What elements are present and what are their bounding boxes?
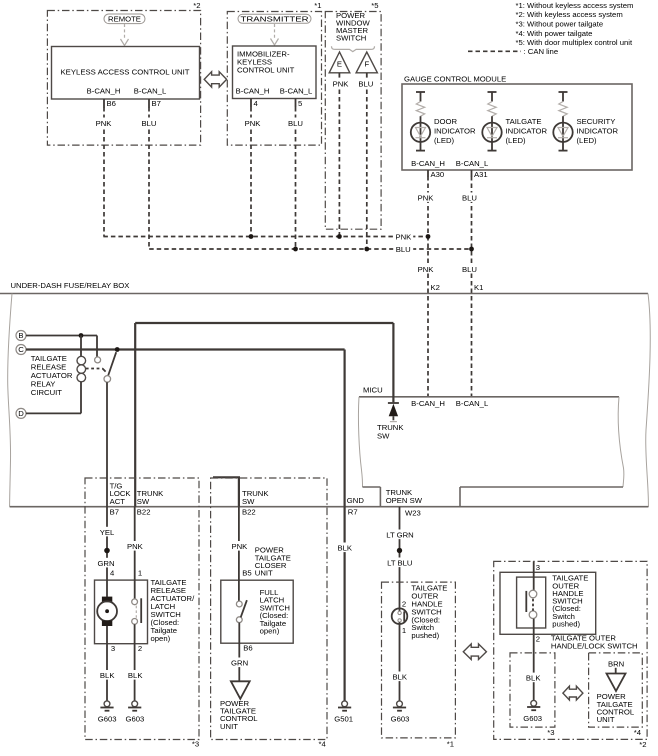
svg-text:BLK: BLK [100,671,115,680]
svg-text:*4: *4 [319,740,327,749]
svg-text:DOOR: DOOR [434,117,458,126]
svg-text:CONTROL UNIT: CONTROL UNIT [237,65,295,74]
svg-text:: CAN line: : CAN line [524,47,559,56]
svg-text:1: 1 [138,568,142,577]
svg-text:CIRCUIT: CIRCUIT [31,388,62,397]
svg-text:SW: SW [377,431,390,440]
svg-text:UNDER-DASH FUSE/RELAY BOX: UNDER-DASH FUSE/RELAY BOX [11,281,130,290]
svg-text:GAUGE CONTROL MODULE: GAUGE CONTROL MODULE [404,75,506,84]
svg-text:PNK: PNK [396,233,413,242]
svg-text:GND: GND [347,496,365,505]
svg-text:REMOTE: REMOTE [108,14,141,23]
svg-text:G603: G603 [125,714,144,723]
svg-text:*1: *1 [314,1,321,10]
svg-text:PNK: PNK [96,119,113,128]
svg-text:*3: Without power tailgate: *3: Without power tailgate [516,20,604,29]
svg-text:UNIT: UNIT [597,715,615,724]
svg-text:SECURITY: SECURITY [577,117,616,126]
svg-text:ACT: ACT [110,497,126,506]
svg-text:4: 4 [110,568,115,577]
svg-text:B-CAN_L: B-CAN_L [456,159,489,168]
svg-text:K2: K2 [431,283,440,292]
svg-text:INDICATOR: INDICATOR [506,126,548,135]
svg-text:BLK: BLK [338,544,353,553]
svg-text:*3: *3 [192,740,199,749]
svg-text:(LED): (LED) [577,136,598,145]
svg-text:B-CAN_L: B-CAN_L [280,87,313,96]
svg-text:KEYLESS ACCESS CONTROL UNIT: KEYLESS ACCESS CONTROL UNIT [61,67,190,76]
svg-text:2: 2 [402,600,406,609]
svg-text:B5: B5 [242,568,251,577]
svg-text:BLU: BLU [358,79,373,88]
svg-text:D: D [18,409,24,418]
svg-text:MICU: MICU [363,386,383,395]
svg-text:B-CAN_L: B-CAN_L [456,399,489,408]
svg-text:pushed): pushed) [552,620,580,629]
svg-text:SW: SW [137,497,150,506]
svg-text:TAILGATE: TAILGATE [506,117,542,126]
svg-text:SWITCH: SWITCH [336,34,366,43]
svg-text:PNK: PNK [245,119,262,128]
svg-text:BLU: BLU [288,119,303,128]
svg-text:OPEN SW: OPEN SW [386,496,423,505]
svg-text:TRANSMITTER: TRANSMITTER [241,14,310,23]
svg-text:A30: A30 [431,170,445,179]
svg-text:5: 5 [298,99,302,108]
svg-text:PNK: PNK [127,542,144,551]
svg-text:*2: *2 [639,740,646,749]
svg-text:UNIT: UNIT [220,722,238,731]
svg-text:F: F [365,60,370,69]
svg-text:B-CAN_H: B-CAN_H [236,87,270,96]
svg-text:*2: *2 [193,1,200,10]
svg-text:G603: G603 [391,714,410,723]
svg-text:BLK: BLK [393,673,408,682]
svg-text:PNK: PNK [231,542,248,551]
svg-text:HANDLE/LOCK SWITCH: HANDLE/LOCK SWITCH [551,641,638,650]
svg-text:B7: B7 [152,99,161,108]
svg-text:W23: W23 [405,508,421,517]
svg-text:3: 3 [536,563,540,572]
svg-text:B-CAN_H: B-CAN_H [87,87,121,96]
svg-text:3: 3 [111,644,115,653]
svg-text:B: B [18,331,23,340]
svg-text:BRN: BRN [608,659,624,668]
svg-text:2: 2 [138,644,142,653]
svg-text:*4: *4 [634,728,642,737]
svg-text:C: C [18,345,24,354]
svg-text:BLU: BLU [142,119,157,128]
svg-text:R7: R7 [348,508,358,517]
svg-text:LT BLU: LT BLU [387,559,412,568]
svg-text:*1: *1 [447,740,454,749]
svg-text:LT GRN: LT GRN [386,531,413,540]
svg-text:BLK: BLK [128,671,143,680]
svg-text:open): open) [260,627,280,636]
svg-text:GRN: GRN [97,559,114,568]
svg-text:(LED): (LED) [506,136,527,145]
svg-text:G603: G603 [523,714,542,723]
svg-text:PNK: PNK [418,193,435,202]
svg-text:YEL: YEL [100,528,115,537]
svg-text:G603: G603 [98,714,117,723]
svg-text:*4: With power tailgate: *4: With power tailgate [516,29,593,38]
svg-text:B7: B7 [110,508,119,517]
svg-text:PNK: PNK [333,79,350,88]
svg-text:BLK: BLK [526,674,541,683]
svg-text:INDICATOR: INDICATOR [577,126,619,135]
svg-text:B-CAN_L: B-CAN_L [134,87,167,96]
svg-text:4: 4 [254,99,259,108]
svg-text:1: 1 [402,626,406,635]
svg-text:K1: K1 [474,283,483,292]
svg-text:UNIT: UNIT [255,569,273,578]
svg-text:E: E [337,60,342,69]
svg-text:BLU: BLU [462,265,477,274]
svg-text:pushed): pushed) [411,631,439,640]
svg-text:A31: A31 [474,170,488,179]
svg-text:BLU: BLU [396,245,411,254]
svg-text:open): open) [151,634,171,643]
svg-text:BLU: BLU [462,193,477,202]
svg-text:B6: B6 [107,99,116,108]
svg-text:*3: *3 [547,728,554,737]
svg-text:*1: Without keyless access sys: *1: Without keyless access system [516,1,634,10]
svg-text:B22: B22 [242,508,256,517]
svg-text:GRN: GRN [231,659,248,668]
svg-text:2: 2 [536,635,540,644]
svg-text:B-CAN_H: B-CAN_H [411,399,445,408]
svg-text:B22: B22 [137,508,151,517]
svg-text:PNK: PNK [418,265,435,274]
svg-text:G501: G501 [334,714,353,723]
svg-text:SW: SW [242,497,255,506]
svg-text:*5: With door multiplex contro: *5: With door multiplex control unit [516,38,634,47]
svg-text:*5: *5 [371,1,378,10]
svg-text:B-CAN_H: B-CAN_H [411,159,445,168]
svg-text:B6: B6 [243,643,252,652]
svg-text:*2: With keyless access system: *2: With keyless access system [516,10,623,19]
svg-text:(LED): (LED) [434,136,455,145]
svg-text:INDICATOR: INDICATOR [434,126,476,135]
